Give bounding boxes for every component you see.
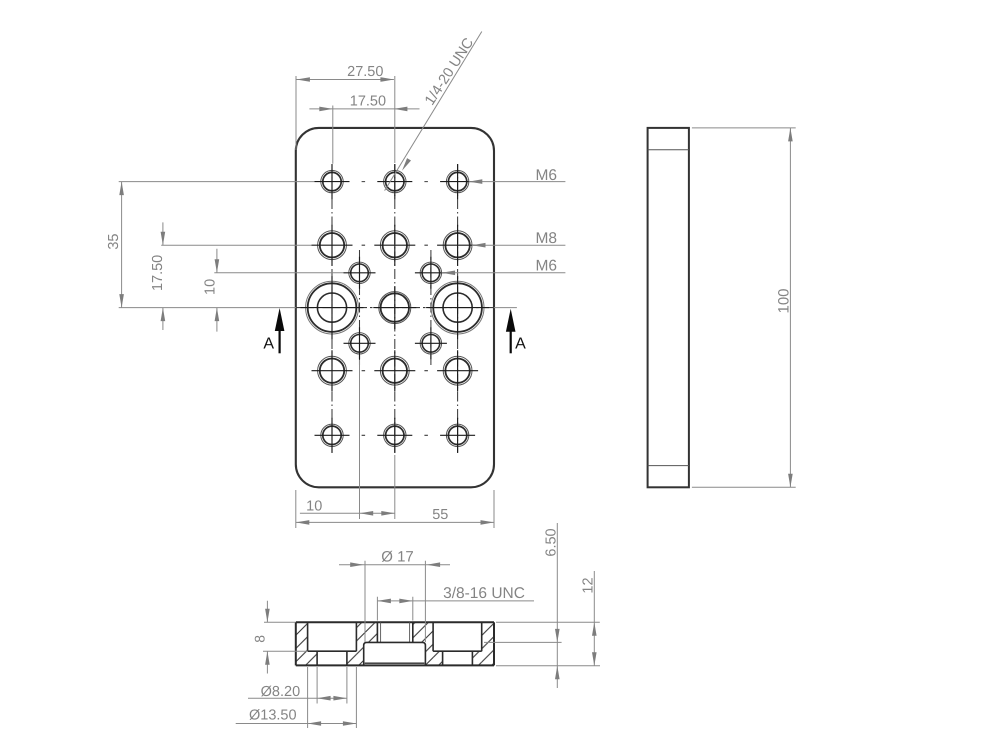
svg-text:Ø 17: Ø 17 — [381, 549, 414, 566]
svg-text:6.50: 6.50 — [543, 528, 559, 556]
section left edge — [295, 622, 297, 665]
right through hole walls — [443, 651, 473, 665]
section arrow A right — [506, 309, 526, 354]
thread hole walls 3/8-16 — [377, 622, 412, 642]
hole 1/4-20 UNC row1 col2 — [377, 164, 412, 199]
section hatching under right counterbore — [433, 651, 482, 665]
section hatching between thread and CB2 — [413, 622, 433, 665]
label M8 with leader — [472, 230, 565, 248]
section right edge — [493, 622, 495, 665]
hole M6 row7 col3 — [440, 418, 475, 453]
dimension 17.50 top — [309, 93, 419, 163]
dimension Ø17 — [339, 549, 450, 643]
pocket Ø17 outline — [364, 642, 426, 665]
hole M8 row6 col3 — [437, 350, 478, 391]
hole M6 row5 left — [344, 327, 376, 359]
svg-text:M6: M6 — [536, 167, 558, 184]
dimension 17.50 left — [150, 222, 166, 330]
hole M6 row7 col1 — [315, 418, 350, 453]
svg-text:35: 35 — [106, 234, 122, 250]
section hatching under left counterbore — [308, 651, 357, 665]
hole M6 row1 col3 — [440, 164, 475, 199]
svg-text:27.50: 27.50 — [347, 64, 383, 80]
dimension 6.50 — [484, 523, 600, 688]
left counterbore walls and floor — [308, 622, 357, 651]
section cut line A-A horizontal chain — [296, 307, 494, 309]
section bottom edge — [296, 664, 494, 666]
vertical centerline column x=430.9 — [430, 250, 432, 366]
dimension 3/8-16 UNC — [377, 585, 534, 621]
extension line row2 left — [161, 244, 311, 246]
pocket floor line — [365, 662, 425, 664]
section top edge — [296, 621, 494, 623]
svg-text:12: 12 — [580, 577, 596, 593]
hole M6 row7 col2 — [377, 418, 412, 453]
dimension 100 — [692, 128, 796, 487]
label M6 top with leader — [469, 167, 566, 184]
svg-text:A: A — [515, 336, 526, 353]
svg-text:3/8-16 UNC: 3/8-16 UNC — [443, 585, 525, 602]
svg-text:100: 100 — [775, 288, 792, 313]
counterbore hole row4 right — [426, 276, 489, 339]
section arrow A left — [263, 308, 284, 353]
section hatching between CB1 and thread — [356, 622, 377, 665]
dimension Ø13.50 — [236, 667, 357, 728]
vertical centerline column x=394.8 — [394, 164, 396, 453]
dimension 10 left — [202, 249, 219, 332]
left through hole walls — [317, 651, 347, 665]
section hatching right block — [482, 622, 494, 665]
svg-text:10: 10 — [202, 279, 218, 295]
centerline dots between holes — [362, 182, 428, 436]
dimension 55 — [296, 490, 494, 528]
leader 1/4-20 UNC — [385, 32, 482, 191]
hole M8 row2 col1 — [312, 225, 353, 266]
svg-text:M6: M6 — [536, 258, 558, 275]
counterbore hole row4 left — [301, 276, 364, 339]
svg-text:Ø13.50: Ø13.50 — [249, 708, 297, 724]
side view outline — [648, 128, 689, 487]
dimension 12 — [496, 571, 600, 666]
hole M6 row3 right — [415, 257, 447, 289]
hole M6 row5 right — [415, 327, 447, 359]
section hatching left block — [296, 622, 308, 665]
svg-text:10: 10 — [306, 499, 322, 515]
dimension 8 — [252, 601, 308, 674]
side view tangent line top — [648, 149, 689, 151]
extension line row4 center — [119, 307, 517, 309]
svg-text:M8: M8 — [536, 230, 558, 247]
hole M6 row1 col1 — [315, 164, 350, 199]
hole M8 row2 col3 — [437, 225, 478, 266]
dimension 27.50 — [296, 64, 395, 163]
hole M6 row3 left — [344, 257, 376, 289]
svg-text:8: 8 — [252, 635, 268, 643]
svg-text:A: A — [263, 336, 274, 353]
dimension Ø8.20 — [248, 667, 347, 704]
extension line row3 left — [214, 272, 343, 274]
svg-text:17.50: 17.50 — [350, 93, 386, 109]
vertical centerline column x=332 — [331, 164, 333, 453]
tapped hole 3/8-16 row4 center — [373, 286, 416, 329]
side view tangent line bottom — [648, 465, 689, 467]
svg-text:17.50: 17.50 — [150, 255, 166, 291]
hole M8 row6 col1 — [312, 350, 353, 391]
label M6 lower with leader — [442, 258, 566, 276]
vertical centerline column x=359.5 — [359, 250, 361, 366]
front view plate outline — [296, 128, 494, 487]
svg-text:Ø8.20: Ø8.20 — [261, 684, 301, 700]
svg-text:55: 55 — [432, 507, 448, 523]
vertical centerline column x=457.6 — [457, 164, 459, 453]
dimension 35 — [106, 182, 124, 308]
right counterbore walls and floor — [433, 622, 482, 651]
dimension 10 bottom — [300, 360, 395, 519]
hole M8 row2 col2 — [374, 225, 415, 266]
hole M8 row6 col2 — [374, 350, 415, 391]
extension line row1 left — [119, 181, 315, 183]
